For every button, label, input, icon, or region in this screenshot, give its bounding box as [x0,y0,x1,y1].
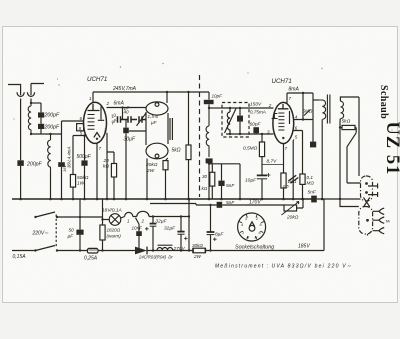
svg-text:(warm): (warm) [107,234,122,239]
switch mains lower [34,249,36,251]
wire rail right [205,200,324,251]
wire main ground bus [12,198,312,200]
node cap bottom [239,133,241,135]
node coil bottom [229,133,231,135]
grid U1 dashes [88,115,95,130]
svg-text:6: 6 [295,126,298,131]
svg-text:Meßinstrument : UVA 833Ω/V bei: Meßinstrument : UVA 833Ω/V bei 220 V∼ [215,264,352,270]
svg-text:200pF: 200pF [26,162,43,168]
wire rail to fuse [57,250,88,252]
wire speaker line after 5nF [317,198,361,200]
wire 170V stub [150,204,217,206]
pin stubs capsule1 [368,183,378,197]
svg-text:32µF: 32µF [156,219,168,225]
capacitor 8uF [210,205,212,232]
svg-text:1,5-6: 1,5-6 [148,114,159,119]
node bus/5k [187,91,189,93]
svg-text:60pF: 60pF [250,122,262,128]
svg-text:8µF: 8µF [215,232,224,238]
resistor 5kOhm [186,145,191,160]
fork connector 1 [373,208,385,214]
cathode U2 [289,111,291,124]
svg-text:5: 5 [295,135,298,140]
wire IFT1 feed [166,92,168,103]
wire osc bottom horizontal [209,163,240,165]
svg-text:UCH71: UCH71 [272,78,292,85]
heater U1 [94,133,100,138]
capacitor padder blob [206,158,213,163]
svg-text:1: 1 [242,231,244,235]
wire grid line y134 [226,133,273,135]
svg-text:10nF: 10nF [132,226,144,231]
socket key [249,222,254,227]
svg-text:200pF: 200pF [44,125,61,131]
svg-text:MΩ: MΩ [307,181,315,186]
plug capsule 2 [359,207,373,235]
wire pin5 down [292,140,294,200]
wire IFT1 bottom-right jog [166,158,168,161]
wire osc node to box [209,107,222,109]
svg-text:5nF: 5nF [226,183,235,189]
node cap top [239,107,241,109]
svg-text:36V,4,4mA: 36V,4,4mA [67,147,72,168]
plus mark [266,173,270,177]
IFT1 core bracket [170,118,172,140]
wire tank bottom horizontal [31,133,62,135]
svg-text:10µF: 10µF [245,178,257,184]
switch link dashed [55,215,57,247]
resistor 0,1MOhm [300,174,305,184]
svg-text:Sockelschaltung: Sockelschaltung [235,245,274,251]
wire antenna lead-in right [31,84,44,93]
transformer core [327,95,330,124]
capacitor anode blob [310,142,316,148]
fuse 0,25A [87,248,98,253]
svg-text:0,1: 0,1 [307,175,314,180]
vertical bus-rail link [188,199,190,251]
plug pins capsule1 [365,182,368,185]
capacitor 10pF pair [118,116,123,123]
anode2 U2 inner [272,114,278,119]
capacitor 5nF osc [221,164,223,181]
svg-text:6mA: 6mA [114,101,125,107]
node coil top [229,107,231,109]
heater winding taps [121,211,189,218]
scan speckles [13,63,392,131]
resistor 0,5MOhm [261,134,263,142]
wire pin3 down [106,133,109,199]
svg-text:270V: 270V [173,246,186,252]
node bus2 [302,92,304,94]
capacitor bandfilter blob [239,108,241,116]
svg-text:0,75mA: 0,75mA [250,110,266,115]
switch tone [347,133,361,183]
capacitor 30uF [125,120,127,128]
dashed stage divider [199,75,201,197]
lamp 18V 0,1A [102,199,104,225]
svg-text:30µF: 30µF [124,137,136,143]
capacitor 500pF [84,136,86,161]
wire IFT1 bottom-left to bus [146,158,148,199]
transformer secondary winding [340,101,343,119]
node speaker line [339,198,341,200]
capacitor riser from anode line [122,108,124,120]
capacitor AVC series [58,162,65,167]
resistor 50kOhm 1W [70,175,75,188]
capacitor 10pF coupling [204,100,214,104]
resistor 30kOhm 2W [193,248,205,253]
wire cap to ground bus [20,166,22,199]
svg-text:7: 7 [99,146,102,151]
svg-text:24C/R03(R04) Dr: 24C/R03(R04) Dr [138,255,173,260]
svg-text:1kΩ: 1kΩ [288,179,297,185]
potentiometer 20kOhm [284,205,297,211]
node U2 internal [282,137,284,139]
svg-text:H: H [255,236,258,240]
svg-text:6: 6 [80,116,83,121]
wire rail fuse to diode [98,250,135,252]
node tank bottom [30,133,32,135]
capacitor 200pF lower tank [38,124,44,129]
tube U2 envelope [273,102,294,143]
resistor 1820 Ohm warm [100,225,105,240]
wire coil2 to bus [50,172,52,200]
svg-text:185V: 185V [298,244,310,250]
svg-text:0,5MΩ: 0,5MΩ [243,146,258,152]
capacitor 5nF 170V [217,202,223,208]
svg-text:32µF: 32µF [164,226,176,232]
transformer primary winding [313,100,326,120]
svg-text:0,25A: 0,25A [84,256,98,262]
svg-text:150V: 150V [250,102,262,108]
grid U2 dashes [278,113,284,130]
tube U1 envelope [84,102,107,143]
svg-text:50: 50 [69,228,75,234]
svg-text:30kΩ: 30kΩ [192,243,203,248]
svg-text:kΩ: kΩ [103,164,109,170]
wire jack2 to tank node [30,99,32,104]
svg-text:UZ 51: UZ 51 [382,122,400,176]
node coil2 top [49,133,51,135]
svg-text:5kΩ: 5kΩ [172,148,181,154]
svg-text:2: 2 [106,101,110,106]
wire 5k to bus [188,160,190,199]
anode U2 [278,104,289,109]
fork connector 2 TA [373,217,385,223]
wire stub to 20k [107,152,114,164]
IFT1 side links [146,112,168,145]
trimmer 1,5-6pF [139,116,146,123]
capacitor 40pF pair [123,116,138,123]
plug capsule 1 [361,176,373,201]
wire 0,5M to 10uF [261,157,263,176]
wire tank top horizontal [31,102,41,104]
svg-text:4: 4 [241,223,243,227]
svg-text:2: 2 [268,103,272,108]
wire anode feed [312,93,314,147]
socket pin numbers [241,217,263,240]
wire 150V line [222,107,273,109]
capacitor 32uF first [152,215,154,217]
svg-text:20: 20 [103,158,110,164]
svg-text:5nF: 5nF [308,190,317,196]
svg-text:kΩ: kΩ [202,186,208,191]
pin 7 wire [96,143,98,199]
resistor 30kOhm [211,164,213,173]
svg-text:18V/0,1A: 18V/0,1A [102,208,122,214]
node bus/IFT [166,91,168,93]
switch mains upper [34,216,36,218]
svg-text:30: 30 [202,174,208,179]
svg-text:H: H [247,236,250,240]
node osc feed [208,107,210,109]
svg-text:3: 3 [104,128,107,133]
inductor oscillator coil [206,108,209,157]
wire secondary bottom [340,119,359,207]
resistor 20kOhm [111,164,116,178]
svg-text:245V,7mA: 245V,7mA [112,86,137,92]
svg-text:20kΩ: 20kΩ [286,215,299,221]
svg-text:10pF: 10pF [212,94,224,99]
svg-text:7: 7 [285,146,288,151]
node grid/0,5M [261,133,263,135]
capacitor 0,5uF slanted [288,175,298,183]
svg-text:500pF: 500pF [77,154,92,160]
wire pin5 [73,136,85,175]
capacitor 10uF cathode [257,174,267,176]
capacitor 10nF [136,218,140,231]
wire tank right branch [40,103,42,134]
trimmer arrow through coil [225,109,237,134]
svg-text:170V: 170V [249,200,261,206]
wire rail diode to 30k [147,250,193,252]
svg-text:20kΩ: 20kΩ [145,162,158,168]
wire pin2 anode line [107,107,147,109]
plug pin capsule2 [366,219,369,222]
wire 10uF down [208,104,210,108]
wire padder to bus [208,163,210,199]
wire 245V bus [93,91,209,93]
svg-text:4: 4 [295,115,298,120]
svg-text:5kΩ: 5kΩ [342,119,351,125]
wire pot to bus [297,199,303,208]
wire jack1 down [20,99,22,161]
capacitor 50uF [79,199,81,230]
fork connector 3 [368,228,385,236]
cathode U1 [98,107,104,121]
anode U1 [88,104,100,111]
wire 5k riser [188,92,190,145]
capacitor 200pF (antenna series) [17,160,23,166]
wire feedback riser [239,164,241,199]
svg-text:1: 1 [89,96,92,101]
svg-text:0,15A: 0,15A [13,254,27,260]
node bus junctions [19,198,323,201]
wire 8mA bus [287,92,313,94]
capacitor 32uF second [180,215,182,217]
IFT1 top winding [146,102,168,115]
wire pin6 to AVC [62,121,84,134]
wire secondary top [340,97,359,176]
svg-text:8,7V: 8,7V [267,159,278,165]
antenna jack 1 [17,92,24,97]
pin 8 shield box [77,124,84,131]
node U1 internal [96,138,98,140]
crossing wires [364,198,370,207]
svg-text:1W: 1W [77,181,85,187]
svg-text:50kΩ: 50kΩ [77,175,89,181]
wire 20k to bus [113,177,115,199]
pin 7 top wire [286,93,288,104]
socket pin marks [239,215,264,240]
capacitor 60pF [253,127,259,133]
svg-text:2W: 2W [146,168,155,174]
svg-text:TA: TA [385,218,390,223]
choke Dr [158,244,173,246]
svg-text:5: 5 [80,131,83,136]
socket circle [238,213,266,241]
svg-text:1820Ω: 1820Ω [107,228,121,233]
wire switch to lamp [57,216,103,218]
svg-text:2W: 2W [193,254,202,259]
svg-text:8mA: 8mA [289,87,300,93]
svg-text:3: 3 [267,130,270,135]
inductor L1 antenna coil [28,103,31,134]
pin 1 wire [92,92,94,103]
svg-text:UCH71: UCH71 [87,76,107,83]
svg-text:2: 2 [141,219,145,224]
svg-text:220V∼: 220V∼ [32,231,50,237]
wire AVC vertical [61,134,63,199]
wire pin4 [294,119,313,121]
resistor 20kOhm 2W [163,161,168,170]
wire pin6 to 0,1M [294,131,303,175]
wire primary top [313,99,319,101]
inductor bandfilter coil [227,108,230,134]
capacitor 200pF upper tank [38,112,44,117]
resistor 1kOhm [283,144,285,173]
wire primary bottom to bus [321,120,323,199]
wire antenna lead-in left [8,85,21,93]
svg-text:Schaub: Schaub [378,85,389,119]
inductor L2 input coil [48,134,51,172]
wire screen riser [302,93,304,120]
wire mains rail left [12,250,36,252]
wire bus corner to 10uF [208,92,210,100]
node osc bottom [208,163,210,165]
IFT1 bottom winding [146,143,168,159]
node pin5/500pF [83,134,85,136]
node tank top [30,102,32,104]
wire 170V line [222,204,284,206]
wire 50k to bus [72,187,74,199]
diode 24C/R03 [135,247,147,255]
antenna jack 2 [27,92,34,96]
svg-text:200pF: 200pF [44,113,61,119]
wire 20k2W to bus [165,170,167,199]
bandfilter box dashed [222,103,249,138]
svg-text:7: 7 [289,96,292,101]
